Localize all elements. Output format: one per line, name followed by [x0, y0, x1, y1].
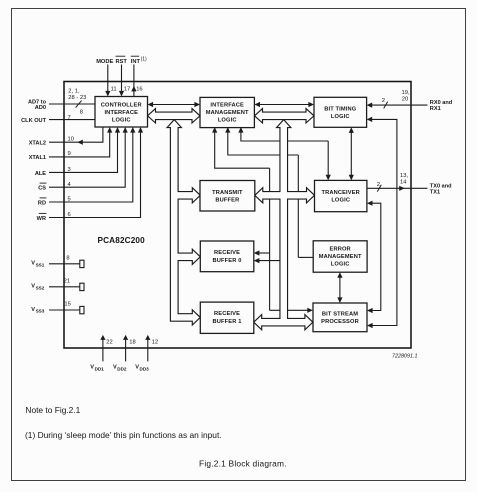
svg-text:INT: INT — [131, 59, 141, 65]
wire thin double arrow CIL-IML — [152, 104, 197, 106]
wire thin double arrow ERROR MANAGEMENT LOGIC to BIT STREAM PROCESSOR — [339, 276, 341, 301]
svg-text:LOGIC: LOGIC — [331, 262, 350, 268]
wire IML to tranceiver-logic net (y=141) — [241, 132, 328, 142]
wire tap from data bus into receive buffer 0 right edge — [258, 260, 280, 262]
svg-text:7228091.1: 7228091.1 — [392, 353, 417, 359]
svg-text:INTERFACE: INTERFACE — [210, 102, 244, 108]
pin VSS2, pin 21 — [49, 286, 80, 288]
svg-text:TRANCEIVER: TRANCEIVER — [321, 190, 359, 196]
pin XTAL2, pin 10, output arrow — [49, 127, 103, 142]
svg-text:6: 6 — [68, 212, 71, 218]
svg-text:LOGIC: LOGIC — [112, 118, 131, 124]
bus arrow CONTROLLER INTERFACE LOGIC to INTERFACE MANAGEMENT LOGIC — [148, 109, 201, 123]
pin RD (active low), pin 5 — [49, 131, 133, 203]
svg-text:12: 12 — [152, 339, 158, 345]
svg-text:SS3: SS3 — [36, 309, 45, 314]
pin XTAL1, pin 9 — [49, 131, 110, 157]
block BIT STREAM PROCESSOR — [313, 303, 367, 332]
svg-text:PROCESSOR: PROCESSOR — [321, 319, 359, 325]
pin VDD3, pin 12 — [147, 339, 149, 362]
pin VSS3, pin 15 — [49, 309, 80, 311]
wire BIT STREAM PROCESSOR to BIT TIMING LOGIC (right vertical x=396.9) — [370, 119, 397, 325]
svg-text:21: 21 — [64, 278, 70, 284]
block CONTROLLER INTERFACE LOGIC — [95, 97, 148, 128]
svg-text:10: 10 — [68, 137, 74, 143]
svg-text:11: 11 — [111, 87, 117, 93]
svg-text:MANAGEMENT: MANAGEMENT — [319, 254, 362, 260]
svg-text:CONTROLLER: CONTROLLER — [101, 102, 142, 108]
block BIT TIMING LOGIC — [314, 97, 367, 127]
pin MODE, pin 11 — [107, 65, 109, 94]
svg-text:RECEIVE: RECEIVE — [214, 250, 240, 256]
svg-text:Fig.2.1 Block diagram.: Fig.2.1 Block diagram. — [199, 458, 287, 468]
pin CLK OUT, pin 7 — [49, 119, 95, 121]
pin ALE, pin 3 — [49, 131, 118, 173]
svg-text:8: 8 — [80, 110, 83, 116]
block INTERFACE MANAGEMENT LOGIC — [200, 97, 254, 127]
svg-text:XTAL1: XTAL1 — [29, 155, 46, 161]
svg-text:7: 7 — [68, 115, 71, 121]
svg-text:BIT TIMING: BIT TIMING — [324, 107, 357, 113]
svg-text:28 - 23: 28 - 23 — [68, 95, 86, 101]
svg-text:14: 14 — [400, 179, 407, 185]
block TRANCEIVER LOGIC — [315, 180, 367, 211]
svg-text:15: 15 — [64, 302, 70, 308]
svg-text:Note to Fig.2.1: Note to Fig.2.1 — [25, 405, 80, 415]
wire thin double arrow BIT TIMING LOGIC to TRANCEIVER LOGIC — [350, 131, 352, 178]
svg-text:9: 9 — [68, 151, 71, 157]
svg-text:13,: 13, — [400, 173, 408, 179]
svg-text:ERROR: ERROR — [330, 247, 351, 253]
pin INT (active low, output), pin 16 — [133, 65, 135, 97]
svg-text:DD3: DD3 — [140, 366, 150, 371]
svg-text:RD: RD — [38, 201, 46, 207]
svg-text:BIT STREAM: BIT STREAM — [322, 311, 358, 317]
svg-text:17: 17 — [124, 87, 130, 93]
svg-text:2: 2 — [377, 182, 380, 188]
bus: left vertical data bus with arrow branches into TRANSMIT BUFFER, RECEIVE BUFFER 0, RECEIVE BUFFER 1 — [167, 120, 200, 325]
wire TRANCEIVER LOGIC to BIT STREAM PROCESSOR (right vertical x=380.8) — [371, 203, 381, 310]
svg-text:SS2: SS2 — [36, 285, 45, 290]
svg-text:19,: 19, — [402, 90, 410, 96]
svg-text:2: 2 — [382, 98, 385, 104]
svg-text:DD2: DD2 — [117, 366, 127, 371]
svg-text:ALE: ALE — [35, 171, 46, 177]
svg-text:(1): (1) — [141, 57, 147, 63]
svg-text:3: 3 — [68, 167, 71, 173]
bus: right vertical bus joined with TRANSMIT BUFFER - TRANCEIVER LOGIC arrow and RECEIVE BUFFER 1 - BIT STREAM PROCESSOR arrow — [254, 120, 315, 330]
svg-text:AD0: AD0 — [35, 105, 46, 111]
svg-text:5: 5 — [68, 197, 71, 203]
svg-text:CLK OUT: CLK OUT — [21, 118, 46, 124]
block ERROR MANAGEMENT LOGIC — [313, 241, 367, 272]
svg-text:TX1: TX1 — [430, 190, 440, 196]
svg-text:LOGIC: LOGIC — [331, 197, 350, 203]
svg-text:XTAL2: XTAL2 — [29, 141, 46, 147]
pin VSS1, pin 8 — [49, 263, 80, 265]
svg-text:RECEIVE: RECEIVE — [214, 311, 240, 317]
svg-text:CS: CS — [38, 186, 46, 192]
svg-text:DD1: DD1 — [95, 366, 105, 371]
pin VDD1, pin 22 — [102, 339, 104, 362]
block RECEIVE BUFFER 1 — [200, 302, 254, 333]
svg-text:WR: WR — [37, 216, 46, 222]
svg-text:16: 16 — [136, 87, 142, 93]
svg-text:MANAGEMENT: MANAGEMENT — [206, 110, 249, 116]
svg-text:2, 1,: 2, 1, — [68, 88, 80, 94]
svg-text:RX0 and: RX0 and — [430, 100, 453, 106]
wire thin double arrow IML-BTL — [259, 104, 311, 106]
wire IML pin to transmit/receive status net (vertical x=269.6 down to BSP, branch to RB0) — [215, 132, 270, 169]
device block outline PCA82C200 — [64, 82, 411, 349]
svg-text:SS1: SS1 — [36, 262, 45, 267]
pin TX0 and TX1, pins 13,14, bus of 2, from TRANCEIVER LOGIC — [367, 187, 428, 189]
bus arrow INTERFACE MANAGEMENT LOGIC to BIT TIMING LOGIC — [255, 109, 315, 123]
svg-text:BUFFER: BUFFER — [215, 197, 239, 203]
pin VDD2, pin 18 — [125, 339, 127, 362]
svg-text:LOGIC: LOGIC — [218, 118, 237, 124]
svg-text:18: 18 — [129, 339, 135, 345]
svg-text:20: 20 — [402, 97, 408, 103]
svg-text:BUFFER 1: BUFFER 1 — [213, 319, 242, 325]
svg-text:TRANSMIT: TRANSMIT — [212, 190, 243, 196]
svg-text:MODE: MODE — [96, 59, 113, 65]
svg-text:8: 8 — [66, 255, 69, 261]
block TRANSMIT BUFFER — [200, 181, 255, 212]
pin RX0 and RX1, pins 19,20, bus of 2, into BIT TIMING LOGIC — [370, 104, 427, 106]
block RECEIVE BUFFER 0 — [200, 241, 254, 272]
svg-text:BUFFER 0: BUFFER 0 — [213, 258, 242, 264]
svg-text:22: 22 — [106, 339, 112, 345]
svg-text:RX1: RX1 — [430, 106, 441, 112]
svg-text:PCA82C200: PCA82C200 — [98, 236, 146, 245]
svg-text:RST: RST — [116, 59, 128, 65]
pin RST (active low), pin 17 — [121, 65, 123, 94]
svg-text:(1) During ‘sleep mode’ this p: (1) During ‘sleep mode’ this pin functio… — [25, 430, 222, 440]
svg-text:LOGIC: LOGIC — [331, 114, 350, 120]
wire IML to error-management-logic net (y=155) — [228, 132, 298, 156]
wire branch from status net into receive buffer 0 right edge — [258, 252, 270, 254]
pin AD7 to AD0, pins 2,1,28-23, bus of 8 — [49, 103, 95, 105]
pin CS (active low), pin 4 — [49, 131, 125, 188]
pin WR (active low), pin 6 — [49, 131, 141, 218]
svg-text:INTERFACE: INTERFACE — [104, 110, 138, 116]
